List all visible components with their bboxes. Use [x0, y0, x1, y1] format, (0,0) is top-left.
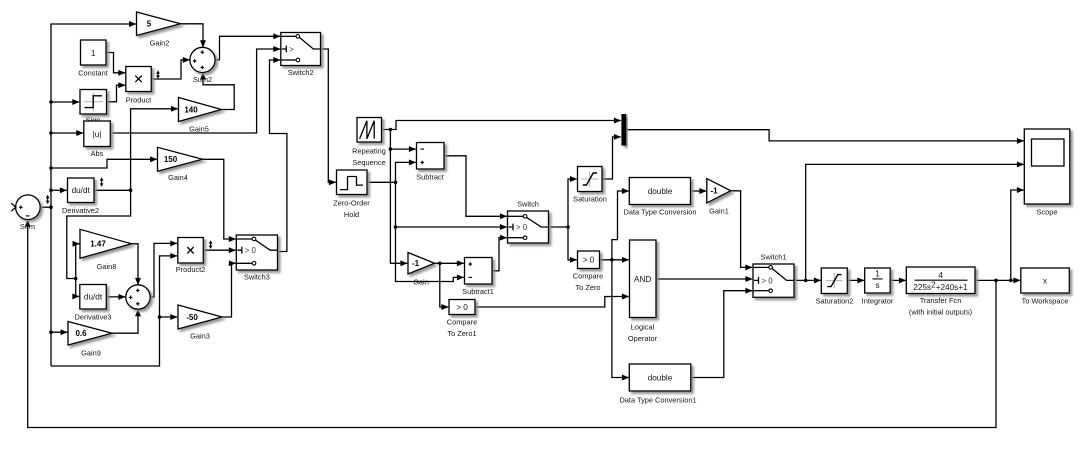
wire trunk to Gain4: [51, 159, 157, 168]
svg-text:s: s: [875, 281, 879, 290]
integrator Integrator: [865, 268, 891, 293]
compare-to-zero Compare To Zero1: [449, 300, 475, 315]
signal badge: [47, 197, 49, 201]
wire Gain9 to sum circle bottom: [112, 309, 139, 333]
svg-text:Scope: Scope: [1037, 208, 1058, 217]
switch Switch1: [753, 264, 794, 297]
wire to Subtract1 in2: [396, 227, 464, 282]
svg-text:> 0: > 0: [583, 256, 595, 265]
svg-text:Sequence: Sequence: [352, 158, 385, 167]
wire Switch2 to Zero-Order Hold: [321, 49, 336, 182]
svg-text:Gain3: Gain3: [190, 332, 210, 341]
wire Gain to Subtract1 in1: [435, 262, 464, 264]
wire Integrator to Transfer Fcn: [890, 279, 906, 281]
abs Abs: [84, 121, 111, 147]
svg-text:AND: AND: [634, 275, 651, 284]
wire Subtract1 to Switch in3: [492, 238, 507, 271]
wire sum circle to Product2 in1: [150, 243, 177, 297]
wire trunk to Gain2: [51, 24, 136, 366]
sum Sum: [16, 195, 41, 220]
sum Add: [126, 285, 150, 309]
svg-text:225s2+240s+1: 225s2+240s+1: [913, 280, 968, 292]
svg-text:Derivative2: Derivative2: [62, 206, 99, 215]
sum Sum2: [190, 47, 215, 72]
wire Compare To Zero to AND in1: [600, 259, 629, 261]
gain Gain4: [158, 147, 203, 171]
wire Compare To Zero1 to AND in2: [475, 297, 629, 308]
sign Sign: [80, 90, 107, 115]
wire Sign to Product in2: [107, 85, 126, 102]
transfer-fcn Transfer Fcn: [906, 267, 975, 294]
svg-text:> 0: > 0: [245, 246, 257, 255]
wire DTC to Gain1: [691, 190, 707, 192]
svg-text:0.6: 0.6: [75, 329, 87, 338]
wire branch down-left: [67, 190, 131, 278]
svg-text:Repeating: Repeating: [352, 147, 386, 156]
wire to Compare To Zero1: [440, 263, 449, 307]
wire to Data Type Conversion1: [612, 260, 629, 378]
svg-text:Switch1: Switch1: [761, 253, 787, 262]
mux Mux: [621, 114, 626, 146]
wire to Saturation: [568, 179, 577, 227]
wire feedback to Sum bottom: [28, 220, 996, 428]
wire branch down: [389, 130, 391, 150]
product Product2: [178, 238, 204, 264]
svg-text:(with initial outputs): (with initial outputs): [909, 308, 972, 317]
wire Gain2 to Sum2 top: [180, 24, 203, 47]
data-type-conversion Data Type Conversion1: [629, 364, 691, 391]
signal badge: [157, 73, 159, 76]
wire Gain4 to Switch3 in1: [202, 159, 236, 239]
wire ZOH out: [367, 181, 396, 183]
wire Sum out to trunk: [40, 206, 51, 208]
svg-text:double: double: [648, 373, 673, 382]
sum Subtract: [417, 143, 445, 170]
wire to Scope in3: [1011, 190, 1024, 280]
svg-text:Gain9: Gain9: [81, 349, 101, 358]
svg-text:Transfer Fcn: Transfer Fcn: [920, 296, 962, 305]
wire Gain8 to sum circle top: [131, 244, 138, 285]
svg-text:Zero-Order: Zero-Order: [333, 199, 370, 208]
svg-text:Product: Product: [126, 96, 151, 105]
svg-text:> 0: > 0: [516, 223, 528, 232]
svg-text:-1: -1: [710, 187, 718, 196]
wire Derivative3 to sum circle left: [107, 296, 126, 298]
svg-text:Switch: Switch: [517, 200, 539, 209]
signal badge: [210, 243, 212, 247]
svg-text:4: 4: [938, 271, 943, 280]
gain Gain9: [68, 322, 112, 346]
svg-text:To Workspace: To Workspace: [1022, 297, 1069, 306]
wire Repeating Sequence to Mux in1: [382, 121, 621, 130]
switch Switch2: [281, 33, 321, 66]
wire to Switch in2: [396, 182, 507, 227]
svg-text:Operator: Operator: [628, 334, 658, 343]
gain Gain3: [178, 305, 222, 329]
wire to Subtract in1: [390, 148, 415, 150]
wire AND to Switch1 in2: [656, 278, 752, 280]
sum Subtract1: [465, 258, 493, 285]
wire to Data Type Conversion: [612, 191, 629, 260]
wire Gain1 to Switch1 in1: [731, 191, 753, 268]
svg-text:150: 150: [164, 155, 178, 164]
gain Gain2: [137, 12, 181, 36]
product Product: [126, 67, 152, 92]
wire Gain5 to Sum2 bottom: [203, 73, 234, 110]
svg-text:Constant: Constant: [78, 69, 108, 78]
svg-text:Saturation2: Saturation2: [816, 297, 854, 306]
svg-text:Hold: Hold: [344, 210, 359, 219]
data-type-conversion Data Type Conversion: [629, 178, 690, 205]
svg-text:Switch3: Switch3: [244, 273, 270, 282]
wire Switch out: [549, 226, 569, 228]
gain Gain5: [179, 98, 222, 122]
svg-text:> 0: > 0: [456, 303, 468, 312]
svg-text:|u|: |u|: [93, 130, 102, 139]
wire branch to Gain5: [131, 109, 178, 191]
constant Constant: [81, 40, 107, 65]
wire Gain3 to Switch3 in3: [222, 263, 236, 317]
wire Product2 to Switch3 in2: [204, 249, 236, 251]
svg-text:Gain: Gain: [413, 278, 429, 287]
gain Gain: [408, 253, 435, 275]
svg-text:double: double: [648, 187, 673, 196]
svg-text:140: 140: [184, 105, 198, 114]
wire trunk to Abs: [51, 132, 83, 134]
wire trunk detour to Product2 in2: [51, 256, 177, 366]
svg-text:Compare: Compare: [447, 318, 477, 327]
svg-text:Product2: Product2: [176, 265, 206, 274]
svg-text:To Zero: To Zero: [575, 283, 600, 292]
wire Abs to Switch2 in2: [110, 49, 280, 133]
svg-text:Gain4: Gain4: [168, 173, 188, 182]
svg-text:Compare: Compare: [573, 272, 603, 281]
svg-text:Gain1: Gain1: [709, 207, 729, 216]
svg-text:x: x: [1043, 277, 1047, 286]
svg-text:5: 5: [147, 20, 152, 29]
gain Gain8: [80, 229, 132, 258]
zero-order-hold Zero-Order Hold: [337, 170, 368, 195]
wire to Subtract in2: [396, 162, 416, 182]
svg-text:Integrator: Integrator: [862, 297, 894, 306]
svg-text:du/dt: du/dt: [84, 293, 103, 302]
wire DTC1 to Switch1 in3: [691, 291, 752, 378]
wire trunk to Derivative2: [51, 189, 67, 191]
svg-text:1.47: 1.47: [90, 240, 106, 249]
wire trunk to Sign: [51, 101, 79, 103]
wire Switch1 to Saturation2: [794, 279, 821, 281]
unconnected port of Sum: [11, 203, 16, 211]
switch Switch3: [236, 235, 277, 270]
switch Switch: [508, 211, 549, 243]
to-workspace To Workspace: [1021, 268, 1070, 293]
wire Sum2 to Switch2 in1: [215, 36, 280, 60]
wire to Scope in2: [806, 164, 1024, 280]
wire Subtract to Switch in1: [444, 156, 507, 217]
svg-text:Gain8: Gain8: [97, 262, 117, 271]
svg-text:>: >: [289, 45, 294, 54]
saturation Saturation2: [821, 268, 847, 294]
wire to Gain in: [390, 149, 407, 263]
saturation Saturation: [578, 167, 603, 192]
gain Gain1: [707, 179, 731, 204]
svg-text:du/dt: du/dt: [72, 186, 91, 195]
signal badge: [101, 180, 103, 184]
svg-text:Sum2: Sum2: [193, 75, 212, 84]
wire Switch3 to Switch2 in3: [270, 60, 287, 252]
svg-text:Abs: Abs: [91, 149, 104, 158]
svg-text:Logical: Logical: [631, 323, 655, 332]
wire Saturation2 to Integrator: [848, 279, 865, 281]
wire Mux to Scope in1: [626, 130, 1024, 141]
scope Scope: [1024, 129, 1070, 204]
svg-text:Sum: Sum: [20, 222, 35, 231]
svg-text:Gain5: Gain5: [189, 125, 209, 134]
wire to Gain8 in: [76, 244, 80, 279]
svg-text:Gain2: Gain2: [150, 39, 170, 48]
compare-to-zero Compare To Zero: [578, 251, 600, 269]
svg-text:Data Type Conversion: Data Type Conversion: [624, 208, 697, 217]
wire to Derivative3 in: [76, 279, 80, 297]
svg-text:1: 1: [91, 49, 96, 58]
svg-text:-1: -1: [412, 259, 420, 268]
logical-operator AND: [630, 240, 657, 318]
wire Constant to Product in1: [106, 53, 125, 73]
derivative Derivative3: [80, 285, 107, 310]
wire Product to Sum2 left: [151, 60, 190, 79]
derivative Derivative2: [68, 178, 95, 203]
svg-text:1: 1: [875, 270, 880, 279]
wire Saturation to Mux in2: [602, 137, 621, 179]
svg-text:> 0: > 0: [762, 276, 774, 285]
svg-text:Subtract: Subtract: [416, 173, 444, 182]
wire trunk to Gain9: [51, 331, 67, 333]
svg-text:Subtract1: Subtract1: [462, 287, 494, 296]
svg-text:Switch2: Switch2: [288, 68, 314, 77]
wire branch to Gain3: [160, 316, 178, 318]
svg-text:Derivative3: Derivative3: [75, 313, 112, 322]
svg-text:-50: -50: [186, 313, 198, 322]
wire to Compare To Zero: [568, 227, 577, 260]
svg-text:To Zero1: To Zero1: [447, 329, 476, 338]
wire Transfer Fcn to To Workspace: [975, 279, 1020, 281]
repeating-sequence Repeating Sequence: [357, 118, 382, 143]
wire Derivative2 out: [94, 189, 131, 191]
svg-text:Saturation: Saturation: [573, 195, 607, 204]
svg-text:Data Type Conversion1: Data Type Conversion1: [619, 396, 696, 405]
